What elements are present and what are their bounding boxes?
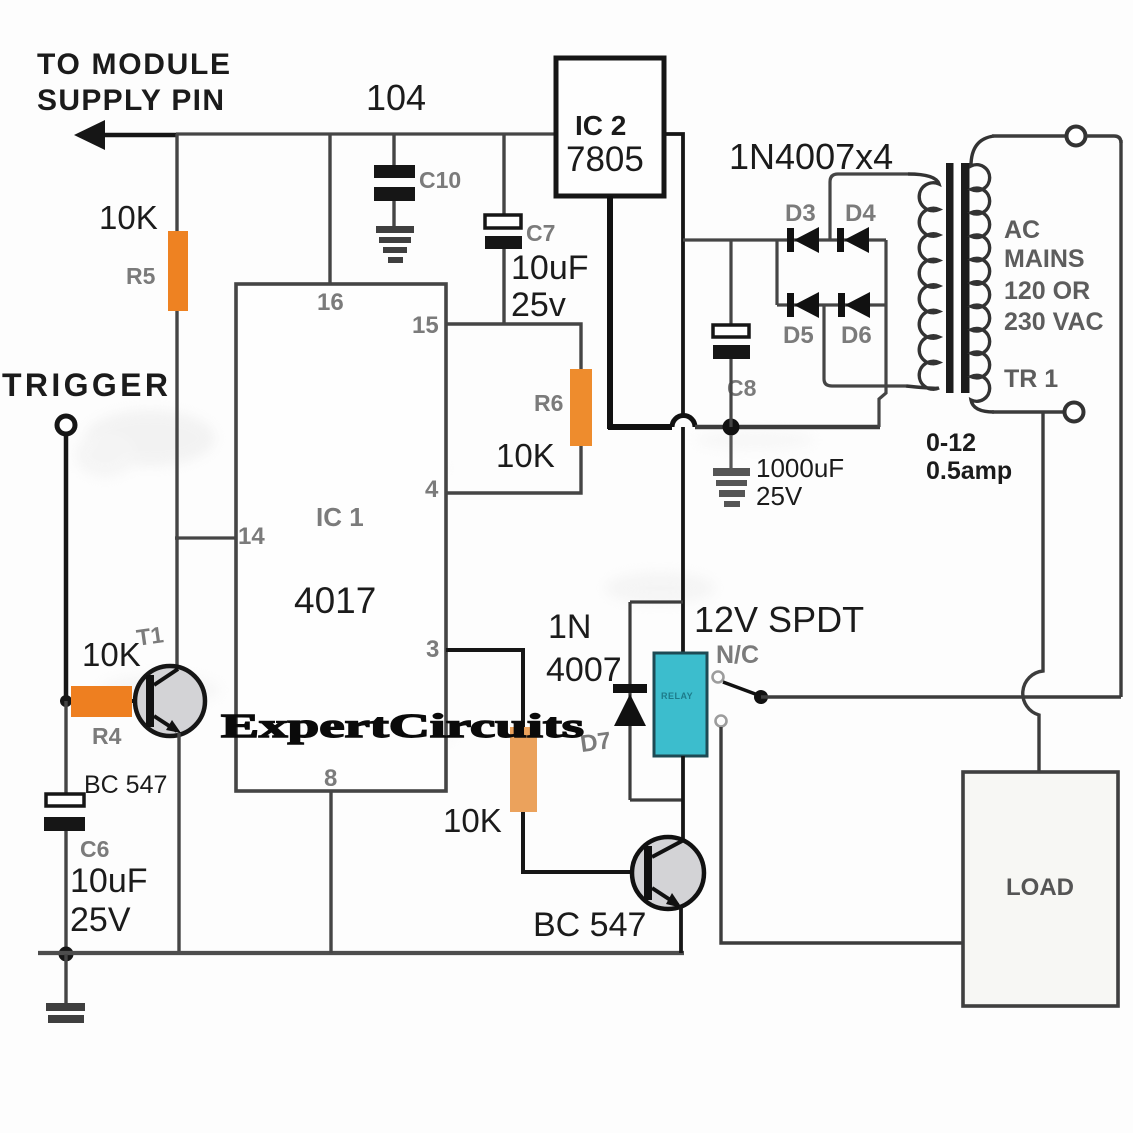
svg-text:RELAY: RELAY — [661, 691, 693, 701]
svg-text:4017: 4017 — [294, 580, 376, 621]
wire R5 bottom to pin14 node — [175, 311, 178, 540]
trigger terminal — [57, 416, 75, 434]
wire bridge left vertical — [775, 240, 778, 305]
node C8 / ground junction — [723, 419, 740, 436]
wire right rail down — [1119, 140, 1122, 697]
contact N/O circle — [716, 716, 727, 727]
svg-text:C6: C6 — [80, 836, 109, 862]
svg-text:12V SPDT: 12V SPDT — [694, 599, 864, 640]
svg-text:4007: 4007 — [546, 651, 622, 689]
svg-text:1N: 1N — [548, 608, 591, 646]
svg-text:7805: 7805 — [566, 140, 644, 179]
svg-text:IC 2: IC 2 — [575, 110, 626, 141]
svg-text:N/C: N/C — [716, 641, 759, 669]
wire to main ground — [64, 954, 67, 1003]
transistor T2 BC547 — [632, 837, 704, 909]
svg-text:BC 547: BC 547 — [84, 771, 167, 799]
svg-text:AC: AC — [1004, 216, 1040, 244]
svg-text:D5: D5 — [783, 322, 814, 349]
wire C8 bottom to node — [729, 359, 732, 427]
svg-text:BC 547: BC 547 — [533, 906, 646, 944]
svg-text:104: 104 — [366, 77, 426, 118]
wire IC2 input from right — [665, 134, 683, 653]
svg-text:R6: R6 — [534, 390, 563, 416]
wire N/O contact down to LOAD — [721, 727, 963, 943]
wire T2 emitter to ground bus — [679, 906, 683, 953]
svg-text:TO MODULE: TO MODULE — [37, 48, 230, 81]
regulator IC2 7805 box — [556, 58, 664, 196]
svg-text:25V: 25V — [756, 481, 803, 511]
resistor R5 — [168, 231, 188, 311]
svg-text:C10: C10 — [419, 167, 461, 193]
wire C7 top — [502, 134, 505, 217]
svg-text:15: 15 — [412, 312, 439, 339]
svg-text:1N4007x4: 1N4007x4 — [729, 136, 893, 177]
value 1000uF 25V (C8) — [756, 453, 844, 511]
svg-text:14: 14 — [238, 523, 265, 550]
wire pin 14 — [175, 536, 236, 539]
diode D4 — [837, 227, 869, 253]
svg-text:120 OR: 120 OR — [1004, 277, 1090, 305]
wire D7 loop bottom — [630, 798, 683, 801]
svg-text:8: 8 — [324, 765, 337, 792]
wire node to ground (C8) — [729, 435, 732, 469]
svg-text:T1: T1 — [135, 621, 165, 651]
wire R5 top — [175, 134, 178, 233]
wire thick ground run — [608, 424, 672, 430]
transformer TR1 secondary winding — [906, 174, 939, 389]
ground (C8 node) — [713, 468, 750, 507]
svg-text:MAINS: MAINS — [1004, 245, 1085, 273]
wire TR1 top to terminal — [992, 134, 1066, 137]
wire TR1 bottom to LOAD (with hop) — [1023, 412, 1043, 772]
wire resistor to T2 base — [523, 812, 649, 872]
wire C8 top — [729, 240, 732, 327]
svg-text:R5: R5 — [126, 263, 156, 289]
svg-text:25v: 25v — [511, 286, 566, 324]
terminal TR1 bottom — [1065, 403, 1084, 422]
wire C6 to ground bus — [64, 831, 67, 954]
wire R6 bottom to pin 4 — [446, 446, 581, 493]
diode D6 — [838, 292, 870, 318]
capacitor C8 — [713, 325, 750, 359]
relay coil box — [654, 653, 707, 756]
wire bridge lower rail — [777, 303, 886, 306]
value 0-12 0.5amp — [926, 429, 1012, 485]
resistor 10K base (T2) — [510, 727, 537, 812]
svg-text:ExpertCircuits: ExpertCircuits — [221, 708, 584, 745]
wire pin 8 to ground bus — [329, 790, 332, 953]
ground (C10) — [376, 226, 414, 263]
svg-text:D3: D3 — [785, 200, 816, 227]
svg-text:C7: C7 — [526, 220, 555, 246]
svg-text:0.5amp: 0.5amp — [926, 457, 1012, 485]
wire pole to right rail (N/C line) — [761, 695, 1121, 698]
diode D5 — [787, 292, 819, 318]
svg-text:IC 1: IC 1 — [316, 502, 364, 532]
svg-text:D4: D4 — [845, 200, 876, 227]
value 10uF 25V (C6) — [70, 862, 148, 939]
svg-text:TR 1: TR 1 — [1004, 365, 1058, 393]
svg-text:D6: D6 — [841, 322, 872, 349]
terminal TR1 top — [1067, 127, 1086, 146]
svg-text:10K: 10K — [496, 437, 555, 474]
label TO MODULE SUPPLY PIN — [37, 48, 230, 117]
wire bridge right vertical — [879, 240, 886, 427]
wire C7 bottom to pin15 line — [502, 249, 505, 324]
svg-text:10K: 10K — [99, 199, 158, 236]
wire pin 3 — [446, 650, 523, 727]
wire pin 16 to supply rail — [328, 134, 331, 285]
svg-text:10uF: 10uF — [511, 249, 589, 287]
transformer TR1 core — [946, 163, 970, 393]
wire relay to T2 collector — [681, 756, 685, 840]
capacitor C10 — [374, 165, 415, 201]
capacitor C7 — [485, 215, 522, 249]
wire D7 left branch — [628, 602, 631, 800]
wire C10 bottom — [392, 201, 395, 228]
svg-text:LOAD: LOAD — [1006, 874, 1074, 901]
ground bus wire — [38, 951, 684, 955]
value 1N 4007 (D7) — [546, 608, 622, 689]
wire TR1 bottom to terminal — [992, 410, 1065, 413]
wire T1 emitter down — [177, 733, 180, 953]
wire ground run to bridge minus — [695, 425, 880, 429]
diode D7 — [613, 684, 647, 726]
transistor T1 BC547 — [135, 666, 205, 736]
svg-text:0-12: 0-12 — [926, 429, 976, 457]
svg-text:SUPPLY PIN: SUPPLY PIN — [37, 84, 224, 117]
wire top supply rail — [176, 132, 556, 135]
wire IC2 ground pin (thick) — [607, 196, 613, 429]
svg-text:25V: 25V — [70, 901, 131, 939]
wire D7 loop top — [630, 600, 683, 603]
wire AC top tap to transformer — [830, 174, 908, 240]
value 10uF 25v (C7) — [511, 249, 589, 324]
wire trigger node to C6 — [64, 701, 67, 795]
node trigger/R4/C6 junction — [60, 695, 72, 707]
wire bridge plus rail — [683, 238, 886, 241]
wire hop over relay feed — [672, 416, 695, 428]
node ground bus / C6 — [59, 947, 74, 962]
resistor R6 — [570, 369, 592, 446]
contact N/C circle — [713, 672, 724, 683]
wire TR1 top terminal to right rail — [1086, 136, 1121, 143]
wire pin14 node to T1 collector — [175, 538, 178, 667]
relay lever — [723, 682, 758, 695]
svg-text:230 VAC: 230 VAC — [1004, 308, 1104, 336]
wire R4 to T1 base — [132, 699, 150, 703]
label AC MAINS 120 OR 230 VAC — [1004, 216, 1104, 336]
diode D3 — [787, 227, 819, 253]
wire trigger down — [64, 434, 69, 703]
svg-text:10uF: 10uF — [70, 862, 148, 900]
resistor R4 — [71, 686, 132, 717]
svg-text:1000uF: 1000uF — [756, 453, 844, 483]
wire C10 top — [392, 134, 395, 167]
node relay pole — [754, 690, 768, 704]
load box — [963, 772, 1118, 1006]
op IC 1 4017 box — [236, 284, 446, 791]
wire pin 15 — [446, 324, 581, 370]
svg-text:4: 4 — [425, 476, 439, 503]
svg-text:R4: R4 — [92, 723, 122, 749]
svg-text:10K: 10K — [443, 802, 502, 839]
svg-text:10K: 10K — [82, 636, 141, 673]
capacitor C6 — [44, 794, 85, 831]
transformer TR1 primary winding — [971, 136, 994, 412]
ground (main) — [46, 1003, 85, 1023]
svg-text:3: 3 — [426, 636, 439, 663]
arrow to module supply pin — [74, 120, 178, 150]
svg-text:16: 16 — [317, 289, 344, 316]
wire AC bottom tap to transformer — [824, 305, 906, 386]
